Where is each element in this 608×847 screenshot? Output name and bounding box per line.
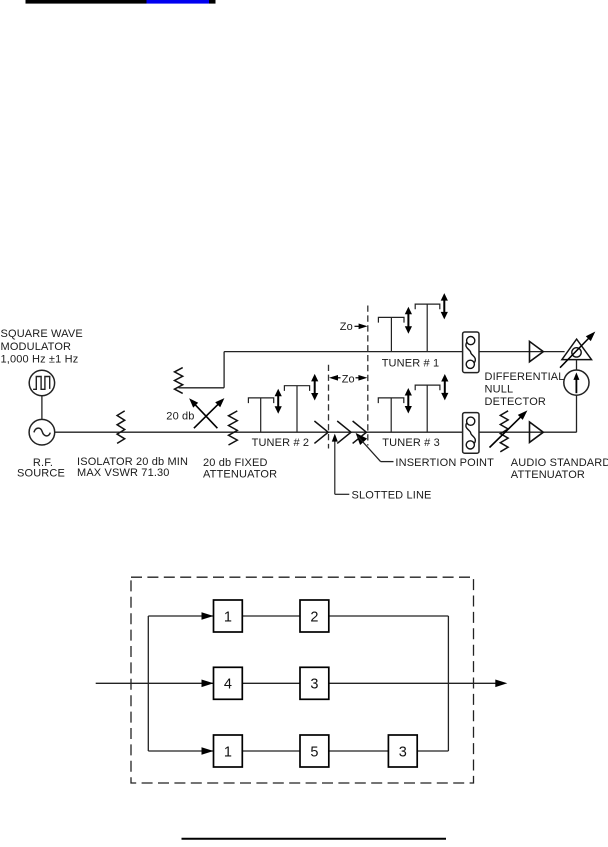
- svg-text:DETECTOR: DETECTOR: [485, 396, 547, 408]
- svg-text:5: 5: [310, 744, 318, 760]
- svg-text:1,000 Hz ±1 Hz: 1,000 Hz ±1 Hz: [1, 354, 79, 366]
- svg-text:20 db FIXED: 20 db FIXED: [203, 457, 268, 469]
- svg-text:TUNER # 3: TUNER # 3: [382, 437, 440, 449]
- svg-text:DIFFERENTIAL: DIFFERENTIAL: [485, 371, 565, 383]
- svg-text:SLOTTED LINE: SLOTTED LINE: [352, 490, 432, 502]
- svg-text:ATTENUATOR: ATTENUATOR: [203, 469, 277, 481]
- svg-text:4: 4: [224, 677, 232, 693]
- svg-text:SQUARE WAVE: SQUARE WAVE: [1, 328, 83, 340]
- svg-text:1: 1: [224, 609, 232, 625]
- svg-text:MAX VSWR 71.30: MAX VSWR 71.30: [77, 467, 170, 479]
- svg-text:Zo: Zo: [340, 321, 353, 333]
- svg-text:SOURCE: SOURCE: [17, 467, 65, 479]
- svg-text:1: 1: [224, 744, 232, 760]
- svg-text:20 db: 20 db: [166, 411, 194, 423]
- svg-text:3: 3: [399, 744, 407, 760]
- svg-text:ATTENUATOR: ATTENUATOR: [511, 469, 585, 481]
- svg-text:Zo: Zo: [342, 373, 355, 385]
- svg-text:2: 2: [310, 609, 318, 625]
- svg-text:TUNER # 1: TUNER # 1: [382, 357, 440, 369]
- svg-text:3: 3: [310, 677, 318, 693]
- svg-text:MODULATOR: MODULATOR: [1, 341, 72, 353]
- svg-text:AUDIO STANDARD: AUDIO STANDARD: [511, 457, 608, 469]
- svg-text:INSERTION POINT: INSERTION POINT: [395, 457, 494, 469]
- svg-text:TUNER # 2: TUNER # 2: [252, 437, 310, 449]
- svg-text:NULL: NULL: [485, 384, 514, 396]
